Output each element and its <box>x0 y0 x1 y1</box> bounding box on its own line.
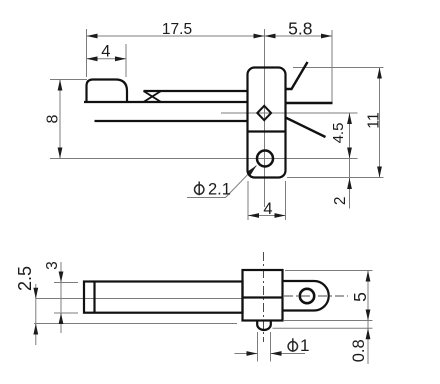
svg-text:4: 4 <box>263 200 272 218</box>
svg-text:0.8: 0.8 <box>350 339 368 362</box>
svg-text:2.5: 2.5 <box>15 266 35 291</box>
svg-text:5.8: 5.8 <box>288 19 312 39</box>
svg-text:11: 11 <box>365 112 382 129</box>
svg-text:17.5: 17.5 <box>162 21 192 38</box>
svg-text:8: 8 <box>45 114 62 123</box>
svg-text:2: 2 <box>332 196 349 205</box>
svg-text:3: 3 <box>44 261 61 270</box>
svg-text:4: 4 <box>101 43 110 61</box>
svg-text:4.5: 4.5 <box>330 123 347 144</box>
svg-text:2.1: 2.1 <box>208 181 231 199</box>
svg-text:5: 5 <box>350 292 370 302</box>
svg-text:1: 1 <box>300 336 309 355</box>
